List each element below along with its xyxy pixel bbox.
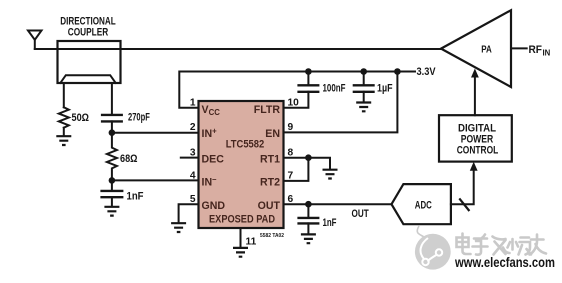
ground pin11 [233,248,248,257]
wire coupled port left branch [63,83,65,107]
coupler coupled-line trapezoid [60,75,115,83]
antenna [28,31,42,50]
wire EN pin9 to rail [284,72,398,133]
svg-text:OUT: OUT [258,200,281,212]
svg-text:100nF: 100nF [323,83,346,95]
digital power control box [439,115,512,161]
amplifier PA triangle [441,10,511,87]
bus slash [459,198,469,211]
svg-text:50Ω: 50Ω [72,112,90,124]
junction RT1/RT2 [305,154,312,161]
wire DPC to PA [474,78,476,116]
junction on rail for 100nF/FLTR [305,68,312,75]
svg-text:4: 4 [190,171,196,182]
wire ADC to digital power control [451,171,474,205]
pin 11 exposed pad stub [240,228,242,246]
label DIRECTIONAL COUPLER [60,15,116,38]
directional coupler box [58,41,121,83]
svg-text:PA: PA [481,45,492,56]
capacitor 1nF (input) [111,180,113,190]
resistor R 68ohm [107,133,117,181]
ground under 50ohm [56,136,71,145]
arrowhead into PA [471,69,479,78]
svg-text:COUPLER: COUPLER [68,26,109,38]
junction on rail for EN [394,68,401,75]
svg-text:GND: GND [202,200,226,212]
svg-text:1nF: 1nF [127,190,144,202]
node junction IN- [109,177,116,184]
svg-text:OUT: OUT [352,208,370,220]
ground RT [323,170,338,179]
svg-text:11: 11 [246,237,257,248]
ground under 1uF [356,103,371,112]
3.3V rail wire [179,72,415,108]
pin 5 hook wire to ground [179,204,199,221]
svg-text:EN: EN [265,128,280,140]
ground under input 1nF [104,207,119,216]
svg-text:EXPOSED PAD: EXPOSED PAD [209,213,275,225]
ground pin5 [171,223,186,232]
svg-text:IN: IN [543,49,551,58]
svg-text:2: 2 [190,122,196,133]
wire node to pin4 IN- [112,179,199,181]
watermark Chinese characters [457,234,547,255]
svg-text:RT2: RT2 [260,176,280,188]
svg-text:www.elecfans.com: www.elecfans.com [454,255,555,270]
wire [111,121,113,132]
wire 100nF to pin10 FLTR [284,92,309,108]
svg-text:3.3V: 3.3V [417,66,436,78]
svg-text:68Ω: 68Ω [120,153,138,165]
ADC block [392,184,451,224]
arrowhead into DPC [470,162,478,171]
wire RT1 pin8 [284,158,331,169]
capacitor 1uF [363,72,365,86]
watermark logo circle [415,226,451,270]
svg-text:ADC: ADC [415,200,432,212]
op IC LTC5582 body [199,101,284,228]
svg-text:LTC5582: LTC5582 [226,139,265,151]
junction on rail for 1uF [360,68,367,75]
svg-text:1nF: 1nF [323,217,337,229]
wire RT2 pin7 [284,158,309,181]
ground under output 1nF [301,234,316,243]
capacitor 100nF [307,72,309,86]
junction OUT [305,201,312,208]
wire [63,128,65,135]
svg-text:1µF: 1µF [377,83,393,95]
svg-text:CONTROL: CONTROL [457,144,499,156]
node junction IN+ [109,129,116,136]
svg-text:FLTR: FLTR [254,104,281,116]
svg-text:5582 TA02: 5582 TA02 [260,233,284,239]
capacitor 270pF [101,115,123,122]
svg-text:270pF: 270pF [128,112,150,124]
pin 3 stub [181,157,199,159]
svg-text:RF: RF [529,44,543,56]
resistor R 50ohm [59,107,69,127]
wire node to pin2 IN+ [112,132,199,134]
capacitor 1nF (output) [307,204,309,217]
wire coupled port right branch [111,83,113,115]
svg-text:DEC: DEC [202,153,225,165]
wire RF in stub [511,47,527,49]
wire OUT pin6 to ADC [284,203,392,205]
svg-text:7: 7 [288,171,294,182]
svg-text:RT1: RT1 [260,153,280,165]
wire main RF line from antenna through coupler to PA [35,48,441,50]
